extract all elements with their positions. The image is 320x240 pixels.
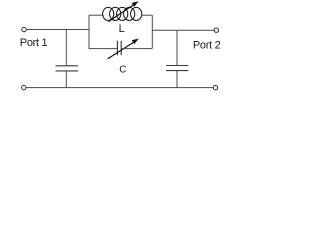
wire: bottom rail [27, 87, 213, 89]
capacitor C (variable, series branch plates) [117, 41, 121, 56]
svg-text:C: C [119, 65, 126, 76]
wire: bottom branch lead left (to capacitor C) [89, 48, 117, 50]
wire: left shunt capacitor lower stem [65, 71, 67, 88]
port 2 terminal (top-right circle) [214, 28, 218, 32]
svg-text:L: L [119, 23, 125, 35]
wire: top rail right (tank right to Port 2) [152, 29, 213, 31]
port 1 terminal (top-left circle) [22, 27, 26, 31]
wire: right shunt capacitor lower stem [176, 71, 178, 88]
wire: top branch lead right (coil to tank right) [142, 14, 153, 16]
capacitor C adjustment arrow [108, 37, 140, 59]
wire: top branch lead left (to coil) [89, 14, 104, 16]
port 1 terminal (bottom-left circle) [22, 85, 26, 89]
shunt capacitor (right) plates [166, 66, 188, 71]
wire: bottom branch lead right (capacitor C to tank right) [121, 48, 152, 50]
inductor L (variable, coil with arrow) [103, 7, 142, 20]
svg-text:Port 1: Port 1 [20, 37, 48, 49]
wire: top rail left (Port 1 to tank left) [27, 29, 89, 31]
shunt capacitor (left) plates [56, 66, 79, 71]
port 2 terminal (bottom-right circle) [213, 85, 217, 89]
wire: LC tank right vertical [151, 15, 153, 48]
wire: right shunt capacitor upper stem [176, 30, 178, 65]
inductor L adjustment arrow [108, 0, 139, 22]
wire: left shunt capacitor upper stem [65, 30, 67, 66]
wire: LC tank left vertical [88, 15, 90, 48]
svg-text:Port 2: Port 2 [193, 39, 221, 51]
